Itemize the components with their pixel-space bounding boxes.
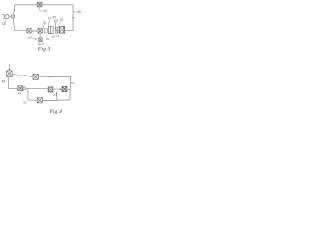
box 13: small light box (44, 29, 47, 33)
wire: link between circles (9, 16, 11, 18)
wire: top-left corner down to pump circle (13, 5, 14, 15)
wire: bottom line into box 55 (28, 99, 37, 101)
small x in junction (12, 16, 13, 17)
svg-text:52: 52 (23, 100, 27, 104)
wire: box 51 to right vertical (39, 75, 71, 77)
svg-text:10: 10 (2, 22, 6, 26)
box 52: crossed box (18, 86, 23, 91)
pump circle P1 (5, 15, 9, 19)
wire: right vertical return line (72, 5, 74, 31)
dash-dot wire from box 50 to box 51 (12, 74, 32, 76)
svg-text:16,17: 16,17 (38, 42, 45, 46)
box 56: crossed box (62, 87, 67, 92)
svg-text:12: 12 (28, 36, 32, 40)
tick for label 40 (73, 10, 76, 12)
arrowhead before box 56 (60, 88, 62, 90)
box 15: narrow box (55, 27, 57, 33)
input arrow into box 50 (9, 64, 11, 71)
svg-text:54: 54 (2, 80, 6, 84)
svg-text:72: 72 (54, 93, 58, 97)
lead 26 (43, 24, 44, 28)
svg-text:Fig 3: Fig 3 (37, 47, 51, 53)
svg-text:19: 19 (46, 37, 49, 41)
lead arrow for label 12 (31, 38, 36, 40)
arrowhead input (9, 69, 11, 71)
box 16: crossed box double wall (59, 27, 65, 33)
junction circle J1 (11, 15, 14, 18)
svg-text:30: 30 (60, 18, 64, 22)
svg-text:40: 40 (77, 10, 81, 14)
rotation arc symbol (drive) (3, 15, 5, 19)
box 51: crossed box (33, 74, 38, 79)
svg-text:41: 41 (43, 9, 47, 13)
svg-text:19: 19 (56, 35, 59, 38)
coupling dashes between box 11 and box 12 (32, 30, 37, 31)
lead 30 (59, 21, 61, 25)
arc arrow tick (3, 13, 4, 16)
lead 29 (54, 22, 57, 27)
arrowhead on left drop wire (14, 9, 16, 11)
wire: T branch down to bottom line (27, 88, 29, 100)
svg-text:27: 27 (48, 16, 52, 20)
box 55: crossed box (37, 98, 42, 103)
arrowhead mid wire (49, 76, 51, 78)
box 53: double crossed box (48, 87, 53, 92)
wire: left drop from box 50 to box 52 (9, 77, 18, 89)
wire: drop from junction to bottom row (13, 18, 26, 31)
box 50: crossed box (7, 71, 13, 77)
box 17: small crossed box below (39, 38, 43, 42)
wire: stub below box 12 (39, 33, 41, 38)
wire: from box 16 to right vertical (65, 29, 73, 31)
arrowhead on right vertical (72, 17, 74, 19)
lead line below valve V1 (40, 7, 43, 11)
wire: bottom line from box 55 to right corner (43, 99, 70, 102)
box 14: tall box with divider (48, 27, 53, 34)
wire: top feed line from left corner to right vertical (15, 4, 73, 6)
svg-text:Fig 4: Fig 4 (49, 108, 63, 115)
wire: box 53 to box 56 (53, 88, 62, 90)
svg-text:70: 70 (71, 81, 75, 85)
lead from label 10 to pump (5, 19, 6, 22)
sensor circle on box 52 (23, 87, 26, 90)
box 12: crossed box (38, 28, 42, 33)
svg-text:14: 14 (18, 91, 22, 95)
arrowhead up branch (56, 92, 58, 94)
wire: circle to box 53 (26, 87, 48, 90)
lead 27 (48, 19, 51, 26)
valve V1: crossed box on top line (37, 2, 42, 7)
lead 28 (54, 18, 56, 27)
wire: right vertical of fig 4 (69, 76, 72, 100)
svg-text:18: 18 (52, 35, 55, 38)
svg-text:26: 26 (43, 20, 47, 24)
wire: box 56 to right vertical (67, 88, 70, 90)
box 11: crossed box (27, 29, 31, 34)
svg-text:29: 29 (55, 19, 59, 23)
up branch from bottom line with arrowhead (56, 93, 58, 101)
